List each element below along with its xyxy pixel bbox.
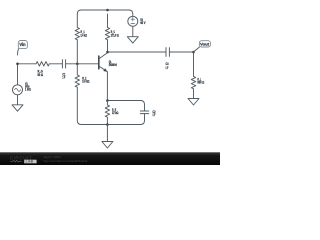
resistor R_L [191,52,195,99]
node emitter junction dot [106,99,109,102]
wire to ground G3 [106,125,108,142]
capacitor C1 [62,60,65,68]
resistor R_C [105,14,109,52]
voltage source V1 [13,85,23,95]
svg-text:50 Ω: 50 Ω [38,73,44,77]
node Vin junction dot [16,63,19,66]
wire emitter box top [107,101,144,112]
wire C2 bottom to rail [107,114,144,125]
wire V1 bottom [17,95,19,105]
svg-text:12 kΩ: 12 kΩ [112,111,119,115]
node base junction dot [76,63,79,66]
svg-text:LAB: LAB [26,160,34,164]
transistor Q1 2N3904 [98,56,100,69]
flag Vout tag [194,47,200,52]
wire V2 bottom [132,26,134,36]
node output junction dot [192,51,195,54]
capacitor C3 [166,48,169,57]
capacitor C2 [140,111,148,114]
voltage source V2 [128,16,138,26]
svg-text:3.9 kΩ: 3.9 kΩ [82,79,89,83]
wire collector line [108,51,194,53]
svg-text:1 F: 1 F [62,76,65,80]
svg-text:40 V: 40 V [140,21,146,25]
wire base line left [18,63,36,65]
node ground junction dot [106,123,109,126]
svg-text:1 kHz: 1 kHz [25,88,31,92]
ground G4 [188,99,199,106]
svg-text:Vout: Vout [200,43,210,47]
node collector junction dot [106,51,109,54]
resistor R_1 [75,14,79,64]
resistor R_G [35,62,50,66]
resistor R_2 [75,64,107,125]
wire V1 top [17,64,19,85]
ground G2 [127,37,138,43]
ground G1 [12,105,23,111]
wire top rail VCC [77,10,133,16]
svg-text:http://circuitlab.com/c/kdq9b5: http://circuitlab.com/c/kdq9b5t/dp43 [43,159,87,163]
svg-text:2N3904: 2N3904 [109,63,117,67]
svg-text:1 F: 1 F [153,113,156,117]
ground G3 [102,142,113,149]
wire C1 to base junction [66,63,99,65]
flag Vin tag [18,49,19,55]
node VCC rail junction dot [106,9,109,12]
svg-text:1 F: 1 F [166,66,169,70]
svg-text:271.8 Ω: 271.8 Ω [111,33,119,37]
resistor R_E [105,101,109,125]
svg-text:Vin: Vin [19,42,26,47]
svg-text:2.4 kΩ: 2.4 kΩ [81,33,88,37]
wire R_G to C1 [50,63,62,65]
svg-text:890 Ω: 890 Ω [197,81,204,85]
